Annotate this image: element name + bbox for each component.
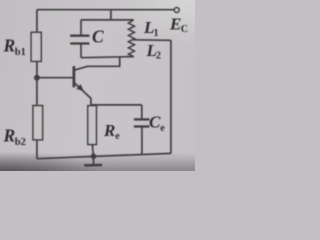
- svg-text:R: R: [3, 36, 16, 56]
- svg-text:C: C: [181, 24, 188, 35]
- svg-text:e: e: [160, 123, 165, 134]
- svg-text:R: R: [103, 121, 115, 140]
- svg-text:C: C: [149, 113, 161, 132]
- svg-text:b2: b2: [15, 137, 26, 148]
- svg-text:E: E: [169, 14, 181, 33]
- svg-text:2: 2: [156, 51, 161, 62]
- svg-text:b1: b1: [15, 47, 26, 58]
- svg-text:C: C: [92, 26, 104, 46]
- svg-text:e: e: [115, 131, 120, 142]
- svg-text:R: R: [3, 125, 16, 145]
- svg-text:1: 1: [154, 28, 159, 39]
